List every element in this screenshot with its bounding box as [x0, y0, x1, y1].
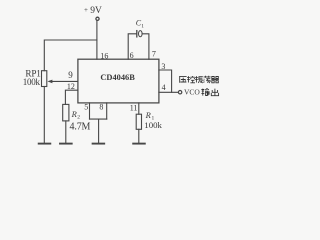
label Chinese 器 [211, 77, 219, 83]
svg-text:11: 11 [130, 104, 138, 113]
wire pin 8 [106, 103, 108, 119]
wire R2 to ground [65, 121, 67, 143]
+9V terminal [96, 17, 99, 20]
wire RP1 bottom to ground [43, 87, 45, 144]
wire pin 6 riser [128, 34, 136, 59]
ground (RP1) [39, 143, 51, 145]
svg-text:VCO: VCO [184, 88, 200, 97]
svg-text:5: 5 [84, 103, 88, 112]
wire to ground (pins 5,8) [98, 119, 100, 143]
wire R1 to ground [138, 129, 140, 143]
svg-text:8: 8 [99, 102, 103, 111]
svg-text:+: + [84, 6, 88, 14]
wire RP1 wiper to pin 9 [50, 80, 78, 82]
resistor R1 body [136, 114, 141, 129]
IC U1 CD4046B body [78, 59, 159, 103]
wire branch to RP1 [44, 40, 97, 71]
ground (R2) [60, 143, 72, 145]
potentiometer RP1 body [42, 71, 47, 87]
svg-text:9: 9 [68, 70, 73, 80]
wire pin 3 stub [159, 70, 172, 92]
wire +9V riser to pin 16 [96, 21, 98, 60]
svg-text:3: 3 [161, 62, 165, 71]
svg-text:1: 1 [141, 23, 144, 29]
svg-text:4: 4 [162, 83, 166, 92]
label Chinese 振 [195, 76, 203, 83]
wire joining pins 5 and 8 [90, 118, 107, 120]
wire pin 7 riser [142, 34, 149, 59]
ground (pins 5,8) [93, 143, 105, 145]
svg-text:7: 7 [152, 50, 156, 59]
capacitor C1 right plate [139, 31, 143, 37]
label Chinese 压 [179, 76, 186, 82]
RP1 wiper arrow head [47, 80, 52, 84]
svg-text:CD4046B: CD4046B [100, 73, 135, 82]
ground (R1) [133, 143, 145, 145]
wire pin 4 to output [159, 91, 178, 93]
wire pin 5 [89, 103, 91, 119]
svg-text:12: 12 [67, 82, 75, 91]
svg-text:4.7M: 4.7M [70, 121, 91, 132]
capacitor C1 left plate [136, 31, 138, 37]
resistor R2 body [63, 104, 69, 121]
svg-text:100k: 100k [144, 120, 162, 130]
wire pin 12 to R2 [65, 90, 78, 104]
label Chinese 控 [187, 76, 195, 83]
svg-text:6: 6 [130, 51, 134, 60]
svg-text:2: 2 [77, 115, 80, 121]
label Chinese 出 [211, 89, 218, 96]
wire pin 11 to R1 [138, 103, 140, 114]
svg-text:100k: 100k [23, 77, 41, 87]
output terminal circle [178, 91, 181, 94]
svg-text:9V: 9V [90, 6, 102, 16]
label Chinese 荡 [203, 76, 210, 83]
svg-text:16: 16 [100, 51, 108, 60]
label Chinese 输 [201, 89, 209, 96]
